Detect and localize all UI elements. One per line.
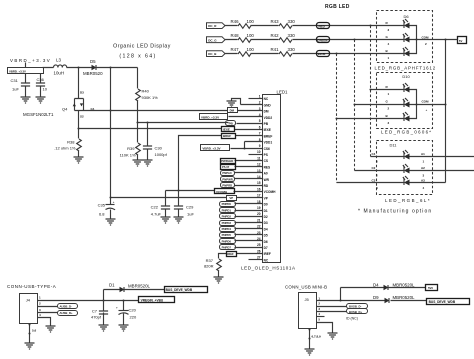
net tag PNPD1 pin 19 — [220, 208, 236, 213]
svg-text:S2: S2 — [80, 115, 84, 119]
resistor R42 — [271, 33, 296, 42]
net box BUS_DEVE_WDB — [165, 287, 208, 293]
svg-text:10: 10 — [43, 87, 48, 92]
net box VCOMH pin 16 — [215, 189, 235, 195]
wire feedback node — [138, 122, 229, 124]
svg-text:VBRD_+3.3V: VBRD_+3.3V — [10, 58, 51, 63]
node C7 tap — [102, 299, 104, 301]
svg-text:C7: C7 — [92, 309, 98, 314]
svg-text:470pf: 470pf — [91, 315, 102, 320]
svg-text:DM: DM — [230, 108, 235, 112]
wire VBUS up branch — [341, 288, 384, 301]
svg-text:P5.07: P5.07 — [222, 165, 230, 169]
svg-text:1000pf: 1000pf — [155, 152, 168, 157]
node Q4 drain tap — [77, 66, 79, 68]
svg-text:D6: D6 — [264, 240, 268, 244]
resistor R37 — [204, 258, 221, 277]
svg-text:WR: WR — [264, 178, 270, 182]
svg-text:+: + — [116, 306, 118, 310]
svg-text:VP: VP — [229, 196, 233, 200]
svg-text:IREF: IREF — [227, 252, 234, 256]
svg-text:DC_B: DC_B — [208, 52, 217, 56]
svg-text:R37: R37 — [206, 258, 214, 263]
svg-text:10: 10 — [257, 150, 261, 154]
svg-text:IREF: IREF — [264, 252, 271, 256]
svg-text:AUSB_D+: AUSB_D+ — [60, 311, 74, 315]
wire D11 row3 — [337, 182, 446, 184]
ground pin 2 — [227, 101, 237, 107]
svg-text:1: 1 — [423, 160, 425, 164]
svg-text:3: 3 — [39, 308, 41, 312]
pin 3 J5 — [317, 307, 347, 312]
wire blue to D10 — [337, 118, 404, 120]
pin 1 — [249, 94, 263, 98]
svg-text:C36: C36 — [37, 77, 45, 82]
svg-text:L3: L3 — [56, 58, 61, 63]
svg-text:D7: D7 — [264, 246, 268, 250]
svg-text:8: 8 — [376, 186, 378, 190]
capacitor C22 — [151, 191, 170, 217]
svg-text:PB: PB — [264, 122, 269, 126]
pin 3 — [238, 107, 263, 111]
svg-text:820R: 820R — [204, 264, 214, 269]
svg-text:DC_G: DC_G — [208, 38, 217, 42]
pin 11 — [235, 156, 263, 160]
net box IEXE pin 6 — [222, 127, 235, 132]
net tag PNPD5 pin 23 — [220, 233, 236, 238]
net tag PNPD2 pin 20 — [220, 214, 236, 219]
svg-text:6: 6 — [259, 125, 261, 129]
svg-text:8: 8 — [259, 138, 261, 142]
LED D10 red — [386, 83, 410, 96]
pin 14 — [235, 175, 263, 179]
svg-text:RD: RD — [264, 184, 269, 188]
node boost output tap — [109, 66, 111, 68]
net tag PNPRD pin 15 — [221, 183, 235, 188]
svg-text:DC_R: DC_R — [208, 24, 217, 28]
net box DM pin 3 — [228, 108, 238, 113]
svg-text:1: 1 — [259, 94, 261, 98]
LED D11 red — [372, 150, 426, 164]
pin 26 — [219, 249, 263, 258]
node C28 tap — [122, 299, 124, 301]
svg-text:16: 16 — [257, 187, 261, 191]
LED D11 blue — [372, 176, 426, 190]
ground C7 — [99, 325, 109, 331]
pin 21 — [235, 218, 263, 222]
svg-text:VCOMH: VCOMH — [216, 190, 227, 194]
svg-text:A3: A3 — [421, 179, 425, 183]
connector J4 — [20, 294, 38, 324]
capacitor C30 — [143, 123, 168, 160]
svg-text:Organic LED Display: Organic LED Display — [113, 44, 171, 50]
svg-text:BUS_DEVE_WDB: BUS_DEVE_WDB — [166, 288, 193, 292]
LED D6 green — [386, 33, 410, 46]
svg-text:BUSB_D-: BUSB_D- — [349, 305, 362, 309]
svg-text:18: 18 — [257, 200, 261, 204]
svg-text:D2: D2 — [264, 215, 268, 219]
svg-text:4: 4 — [318, 312, 320, 316]
svg-text:2: 2 — [259, 101, 261, 105]
svg-text:PNPWR: PNPWR — [222, 177, 232, 181]
svg-text:IEXE: IEXE — [223, 128, 230, 132]
svg-text:MBR0520: MBR0520 — [83, 71, 103, 76]
svg-text:+: + — [426, 108, 428, 112]
wire red row — [225, 25, 404, 27]
net box VBRD_+3.3V on rail — [8, 68, 44, 74]
net box P5.07 pin 12 — [221, 165, 236, 170]
wire boost output vertical — [111, 68, 227, 198]
svg-text:14: 14 — [257, 175, 261, 179]
wire red to D10 — [371, 89, 404, 91]
svg-text:PNPA0: PNPA0 — [222, 171, 232, 175]
svg-text:VCOMH: VCOMH — [264, 190, 277, 194]
svg-text:3: 3 — [259, 107, 261, 111]
diode D1 — [104, 283, 165, 301]
svg-text:5: 5 — [318, 318, 320, 322]
svg-text:VBRD_+3.3V: VBRD_+3.3V — [201, 116, 219, 120]
pin 2 J4 — [38, 302, 58, 307]
resistor R48 — [231, 33, 255, 42]
svg-text:A2: A2 — [421, 166, 425, 170]
svg-text:COM: COM — [422, 35, 430, 39]
svg-text:1: 1 — [388, 56, 390, 60]
net tag BUSB_D+ — [347, 309, 368, 315]
svg-text:VDD2: VDD2 — [264, 116, 273, 120]
svg-text:PNPRD: PNPRD — [222, 184, 232, 188]
svg-text:19: 19 — [257, 206, 261, 210]
svg-text:100: 100 — [247, 33, 255, 38]
ground C35 — [106, 219, 116, 225]
svg-text:5: 5 — [259, 119, 261, 123]
LED D11 green — [372, 164, 426, 178]
pin 18 — [235, 200, 263, 204]
svg-text:G: G — [386, 35, 389, 39]
net tag AUSB_D- — [58, 304, 78, 309]
LED D10 dashed box — [377, 73, 433, 129]
svg-text:DM: DM — [264, 110, 269, 114]
net box VBRD_+3.3V pin 4 — [200, 114, 228, 120]
svg-text:.12 ohm 1%: .12 ohm 1% — [54, 146, 76, 151]
svg-text:23: 23 — [257, 231, 261, 235]
resistor R43 — [271, 19, 296, 29]
resistor R47 — [231, 47, 255, 57]
svg-text:D0: D0 — [264, 203, 268, 207]
svg-text:C22: C22 — [151, 205, 159, 210]
svg-text:2: 2 — [376, 174, 378, 178]
svg-text:10uH: 10uH — [54, 71, 65, 76]
net tag PNPD7 pin 25 — [220, 245, 236, 250]
pin 9 — [231, 142, 263, 149]
svg-text:IEXE: IEXE — [264, 128, 271, 132]
port DC_B — [207, 51, 226, 57]
wire green to D10 — [355, 104, 404, 106]
ground C36 — [36, 97, 46, 103]
svg-text:15: 15 — [257, 181, 261, 185]
net tag PNPA0 pin 13 — [221, 171, 235, 176]
svg-text:R46: R46 — [231, 19, 240, 24]
svg-text:CONN_USB MINI-B: CONN_USB MINI-B — [285, 285, 327, 290]
svg-text:BREF: BREF — [223, 134, 231, 138]
svg-text:PWRLED: PWRLED — [221, 159, 233, 163]
net tag AUSB_D+ — [58, 311, 78, 316]
svg-text:PNPD2: PNPD2 — [222, 215, 232, 219]
svg-text:PNPD6: PNPD6 — [222, 239, 232, 243]
power flag VBRD_+3.3V — [10, 58, 51, 68]
pin 4 J5 ID — [317, 312, 358, 321]
svg-text:6,7,8,9: 6,7,8,9 — [312, 335, 322, 339]
svg-text:4.7uF: 4.7uF — [151, 212, 162, 217]
svg-text:+: + — [113, 200, 115, 204]
pin 2 J5 — [317, 302, 347, 307]
diode D5 — [83, 59, 103, 76]
net tag RED — [317, 23, 330, 29]
svg-text:MBR0520L: MBR0520L — [393, 282, 416, 287]
svg-text:D4: D4 — [264, 227, 268, 231]
svg-text:J4: J4 — [26, 298, 31, 303]
pin 27 — [249, 256, 263, 260]
svg-text:J5: J5 — [305, 297, 310, 302]
LED D10 blue — [386, 112, 410, 125]
svg-text:D9: D9 — [373, 295, 379, 300]
net box VREGIN_+VBU — [139, 297, 175, 303]
svg-text:930K 1%: 930K 1% — [142, 95, 159, 100]
wire green row — [225, 39, 404, 41]
svg-text:6: 6 — [376, 160, 378, 164]
svg-text:22: 22 — [257, 225, 261, 229]
net box BUS_DEVE_WDB mini — [427, 299, 470, 305]
title Organic LED Display — [113, 44, 171, 60]
net tag GREEN — [317, 37, 330, 43]
svg-text:BLUE: BLUE — [318, 52, 326, 56]
svg-text:2: 2 — [425, 42, 427, 46]
port DC_G — [207, 37, 226, 43]
svg-text:4: 4 — [259, 113, 261, 117]
shield pins J4 — [28, 323, 36, 342]
svg-text:PNPD3: PNPD3 — [222, 221, 232, 225]
svg-text:330: 330 — [288, 33, 296, 38]
wire VCOMH line E — [166, 190, 215, 192]
svg-text:9: 9 — [259, 144, 261, 148]
svg-text:D5: D5 — [90, 59, 96, 64]
ground R37 — [214, 277, 224, 283]
pin 1 J5 — [317, 297, 385, 301]
pin 24 — [235, 237, 263, 241]
svg-text:PS: PS — [264, 153, 268, 157]
svg-text:COM: COM — [422, 100, 430, 104]
svg-text:D5: D5 — [264, 234, 268, 238]
inductor L3 — [54, 58, 67, 76]
svg-text:C31: C31 — [11, 78, 19, 83]
svg-text:220: 220 — [130, 315, 137, 320]
capacitor C28 — [116, 301, 137, 325]
svg-text:RGB LED: RGB LED — [325, 4, 350, 10]
diode D9 — [373, 295, 427, 303]
svg-text:3: 3 — [318, 307, 320, 311]
svg-text:330: 330 — [288, 47, 296, 52]
svg-text:D11: D11 — [389, 143, 397, 148]
LED D10 green — [386, 98, 410, 111]
resistor R39 — [120, 123, 141, 160]
svg-text:1: 1 — [39, 296, 41, 300]
net box VP pin 17 — [227, 196, 237, 201]
wire common vertical — [446, 40, 458, 183]
svg-text:ID (NC): ID (NC) — [346, 317, 358, 321]
pin 1 J4 — [38, 296, 139, 301]
diode D4 — [373, 282, 426, 290]
svg-text:D6: D6 — [403, 14, 409, 19]
svg-text:R38: R38 — [67, 140, 75, 145]
svg-text:3: 3 — [388, 121, 390, 125]
LED D6 red — [386, 19, 410, 32]
net tag PNPD4 pin 22 — [220, 227, 236, 232]
pin 15 — [235, 181, 263, 185]
svg-text:BREF: BREF — [264, 134, 273, 138]
pin 3 J4 — [38, 308, 58, 313]
svg-text:17: 17 — [257, 194, 261, 198]
LED D6 dashed box — [377, 11, 433, 63]
svg-text:C4: C4 — [372, 152, 376, 156]
svg-text:MGSF1N02LT1: MGSF1N02LT1 — [23, 112, 54, 117]
svg-text:LED1: LED1 — [277, 90, 289, 95]
svg-text:27: 27 — [257, 256, 261, 260]
wire blue option drop — [336, 54, 338, 183]
wire D6 common bus — [410, 26, 446, 54]
wire blue row — [225, 53, 404, 55]
transistor Q2 MOSFET Q4 — [23, 68, 95, 139]
pin 17 — [237, 194, 263, 198]
svg-text:B: B — [386, 114, 389, 118]
svg-text:C3: C3 — [372, 179, 376, 183]
pin 16 — [234, 187, 263, 191]
net tag BUSB_D- — [347, 304, 368, 309]
svg-text:R41: R41 — [271, 47, 280, 52]
ground C30 — [143, 160, 153, 166]
svg-text:G: G — [386, 100, 389, 104]
net tag PNPWR pin 14 — [221, 177, 235, 182]
svg-text:PNPD7: PNPD7 — [222, 246, 232, 250]
ground C29 — [174, 217, 184, 223]
svg-text:100: 100 — [247, 47, 255, 52]
connector J5 — [299, 293, 317, 329]
pin 22 — [235, 225, 263, 229]
svg-text:R47: R47 — [231, 47, 240, 52]
pin 6 — [235, 125, 263, 129]
pin 8 — [245, 138, 263, 142]
svg-text:PNPD1: PNPD1 — [222, 208, 232, 212]
svg-text:AUSB_D-: AUSB_D- — [60, 305, 73, 309]
svg-text:3: 3 — [388, 28, 390, 32]
svg-text:1: 1 — [388, 92, 390, 96]
svg-text:4: 4 — [388, 42, 390, 46]
pin 25 — [235, 243, 263, 247]
port DC_R — [207, 23, 226, 29]
svg-text:5,6: 5,6 — [32, 329, 37, 333]
svg-text:C30: C30 — [155, 146, 163, 151]
svg-text:4: 4 — [423, 186, 425, 190]
ground shield J5 — [305, 349, 315, 355]
svg-text:2: 2 — [39, 302, 41, 306]
ground pin 4 J4 — [46, 326, 56, 332]
net box anode tag — [458, 37, 467, 44]
svg-text:VREGIN_+VBU: VREGIN_+VBU — [141, 299, 164, 303]
svg-text:5V0: 5V0 — [428, 286, 433, 290]
svg-text:CS6: CS6 — [264, 147, 270, 151]
ground R38 — [74, 157, 84, 163]
svg-text:24: 24 — [257, 237, 261, 241]
svg-text:20: 20 — [257, 212, 261, 216]
svg-text:C29: C29 — [186, 205, 194, 210]
svg-text:4: 4 — [39, 313, 41, 317]
node source tap — [77, 127, 79, 129]
capacitor C31 — [11, 74, 31, 97]
svg-text:D3: D3 — [264, 221, 268, 225]
svg-text:PNPD0: PNPD0 — [222, 202, 232, 206]
svg-text:VP: VP — [264, 196, 269, 200]
net box VBRD_+3.3V pins 8 9 — [201, 145, 230, 151]
resistor R40 — [136, 68, 158, 123]
ground shield J4 — [25, 343, 35, 349]
svg-text:D3: D3 — [80, 91, 84, 95]
svg-text:GREEN: GREEN — [317, 38, 327, 42]
svg-text:D10: D10 — [402, 74, 410, 79]
resistor R46 — [231, 19, 255, 29]
svg-text:VBRD_+3.3V: VBRD_+3.3V — [202, 147, 220, 151]
svg-text:3: 3 — [423, 174, 425, 178]
capacitor C7 — [91, 301, 108, 325]
svg-text:R: R — [386, 85, 389, 89]
svg-text:BUS_DEVE_WDB: BUS_DEVE_WDB — [429, 300, 456, 304]
svg-text:C35: C35 — [98, 203, 106, 208]
resistor R38 — [54, 139, 81, 157]
pin 20 — [235, 212, 263, 216]
op-amp U1 OLED module LED1 — [263, 90, 289, 263]
svg-text:330: 330 — [288, 19, 296, 24]
svg-text:1uF: 1uF — [12, 87, 19, 92]
svg-text:BUSB_D+: BUSB_D+ — [349, 310, 363, 314]
svg-text:A1: A1 — [421, 152, 425, 156]
svg-text:R43: R43 — [271, 19, 280, 24]
svg-text:R48: R48 — [231, 33, 240, 38]
pin 4 J4 — [38, 313, 51, 326]
svg-text:MBR0520L: MBR0520L — [128, 284, 151, 289]
net tag PNPD3 pin 21 — [220, 221, 236, 226]
svg-text:A0: A0 — [264, 172, 268, 176]
svg-text:LED_RGB_6L*: LED_RGB_6L* — [385, 198, 431, 203]
svg-text:13: 13 — [257, 169, 261, 173]
wire BREF net — [179, 136, 222, 191]
capacitor C35 — [98, 198, 115, 219]
svg-text:R: R — [386, 21, 389, 25]
pin 12 — [235, 163, 263, 167]
net box PWRLED pin 11 — [221, 159, 236, 164]
net box 5V0 — [426, 285, 438, 291]
pin 4 — [229, 113, 263, 117]
svg-text:LED_RGB_APHFT1612: LED_RGB_APHFT1612 — [375, 66, 437, 71]
svg-text:RES: RES — [264, 165, 271, 169]
ground C28 — [119, 325, 129, 331]
pin 23 — [235, 231, 263, 235]
net tag PNPD6 pin 24 — [220, 239, 236, 244]
svg-text:D4: D4 — [373, 282, 379, 287]
net box BREF pin 7 — [222, 134, 236, 139]
svg-text:MBR0520L: MBR0520L — [393, 295, 416, 300]
svg-text:6.8: 6.8 — [99, 212, 105, 217]
ground C22 — [161, 217, 171, 223]
svg-text:11: 11 — [257, 156, 261, 160]
svg-text:12: 12 — [257, 163, 261, 167]
svg-text:B: B — [386, 49, 389, 53]
